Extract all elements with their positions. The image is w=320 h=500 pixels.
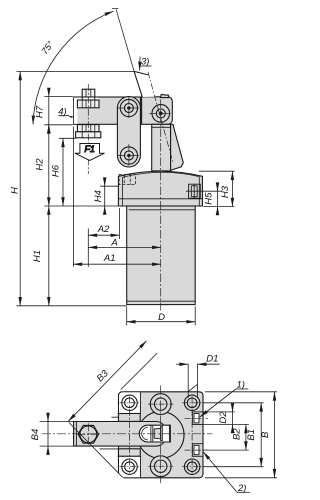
cylinder head inner line [129, 209, 195, 211]
dim B1 [260, 403, 262, 467]
dim A [88, 246, 161, 248]
dim D2 [232, 404, 234, 412]
pocket bottom-left [119, 456, 140, 477]
main vertical centerline [160, 386, 162, 484]
column top pin line [152, 126, 171, 128]
clamping spindle stud [76, 89, 101, 138]
bore circle [137, 412, 184, 459]
dim H [19, 71, 21, 305]
svg-text:H7: H7 [35, 105, 46, 118]
bracket block lower [119, 449, 141, 456]
dim A1 [73, 263, 160, 265]
svg-text:H4: H4 [93, 190, 104, 202]
arm axis dash-dot [148, 72, 173, 163]
svg-text:A2: A2 [97, 224, 110, 235]
hole bottom-right [182, 459, 202, 474]
left air port hidden [119, 174, 135, 184]
arm horizontal centerline [42, 433, 213, 435]
rod end pieces [151, 425, 170, 442]
svg-text:D: D [158, 312, 165, 323]
svg-text:H2: H2 [35, 158, 46, 171]
dim A2 [88, 234, 119, 236]
arm tip tick [112, 8, 119, 10]
pad 1 [185, 412, 209, 425]
spindle centerline [87, 84, 89, 174]
dim D1 [176, 363, 188, 365]
dim H6 [62, 138, 64, 206]
spindle crosshair [77, 423, 99, 445]
svg-text:B3: B3 [95, 368, 112, 385]
dim B2 extension [204, 449, 249, 451]
dim H6 extension [59, 137, 76, 139]
right air port [189, 184, 201, 198]
clamp arm bottom view [74, 422, 166, 447]
dim D [127, 321, 196, 323]
dim B extensions [205, 392, 277, 478]
cylinder centerline [160, 100, 162, 311]
spindle hex [78, 425, 99, 443]
dim H1 extension mid [44, 205, 126, 207]
dim B4 [47, 414, 49, 422]
dim H1 [48, 206, 50, 306]
dim A1 extension left [72, 127, 74, 267]
svg-text:H1: H1 [32, 250, 43, 262]
svg-text:F1: F1 [84, 144, 95, 154]
dim H3 extensions [199, 171, 235, 206]
dim B3 corner extension [121, 353, 158, 390]
spindle washer [76, 132, 101, 138]
dim D1 extensions [188, 364, 197, 398]
dim A2 extension right [118, 208, 120, 239]
cylinder bottom rim [127, 300, 196, 302]
down column [152, 124, 171, 171]
dim H4 extension [100, 185, 118, 187]
arm clamped wedge [171, 124, 184, 170]
75 degree arc [33, 11, 113, 124]
hole top-left [120, 395, 140, 410]
left holes centerline [129, 397, 131, 474]
arm down tab [161, 95, 169, 98]
svg-text:H5: H5 [203, 192, 214, 205]
dim D2 extensions [204, 412, 249, 425]
spindle circle [80, 426, 97, 443]
dim D extensions [127, 307, 196, 326]
slot inner arc [142, 427, 148, 439]
upper pivot circle [118, 97, 141, 120]
dim B1 extensions [204, 403, 264, 467]
svg-text:H3: H3 [220, 185, 231, 198]
dim H2 [48, 125, 50, 206]
svg-text:B4: B4 [30, 429, 41, 441]
link bar [117, 97, 140, 167]
svg-text:B2: B2 [232, 428, 243, 440]
svg-text:A: A [110, 238, 117, 249]
svg-text:H: H [9, 187, 20, 194]
clamp arm raised position [134, 71, 155, 97]
svg-text:75°: 75° [39, 39, 55, 56]
arm slot [139, 425, 170, 442]
head mounting plate [74, 97, 141, 124]
dim A2 extension left [87, 229, 89, 267]
pivot block [142, 97, 173, 125]
cylinder body [127, 206, 196, 305]
spindle nut lower [77, 125, 99, 132]
arm end cap [75, 422, 77, 447]
arm tip extension line [116, 9, 134, 71]
hole top-mid [148, 394, 173, 415]
pad 2 [185, 444, 209, 457]
pocket top-left [119, 392, 140, 413]
dim B3 perpendicular extension [69, 423, 123, 478]
force arrow F1 [75, 144, 105, 161]
collar inner chamfer [118, 172, 202, 205]
svg-text:D1: D1 [206, 354, 218, 365]
svg-text:B: B [260, 431, 271, 438]
dim B [274, 392, 276, 478]
arm pivot circle [149, 105, 172, 123]
dim H3 [231, 171, 233, 206]
dim H5 [217, 183, 219, 191]
svg-text:D2: D2 [218, 411, 229, 424]
spindle clearance white [74, 98, 77, 124]
dim H extension top [17, 70, 135, 72]
svg-text:B1: B1 [246, 429, 257, 441]
dim H7 extensions [44, 97, 73, 125]
bracket block upper [119, 414, 141, 422]
collar [118, 171, 202, 206]
dim B4 extensions [40, 422, 74, 447]
lower pivot circle [118, 144, 141, 167]
svg-text:H6: H6 [51, 164, 62, 177]
hole top-right [182, 395, 202, 410]
svg-text:A1: A1 [103, 253, 116, 264]
dim H extension bottom [17, 305, 127, 307]
thread mark top-right hole [188, 384, 197, 391]
flange plate [119, 392, 204, 478]
right holes centerline [191, 397, 193, 474]
hole bottom-left [120, 459, 140, 474]
dim H7 [48, 88, 50, 97]
spindle nut upper [77, 100, 99, 108]
dim H4 [104, 178, 106, 186]
dim B2 [245, 424, 247, 450]
dim B3 [68, 341, 146, 421]
hole bottom-mid [148, 456, 173, 477]
dim H5 extension [186, 190, 222, 192]
bracket tab lines [100, 417, 119, 449]
